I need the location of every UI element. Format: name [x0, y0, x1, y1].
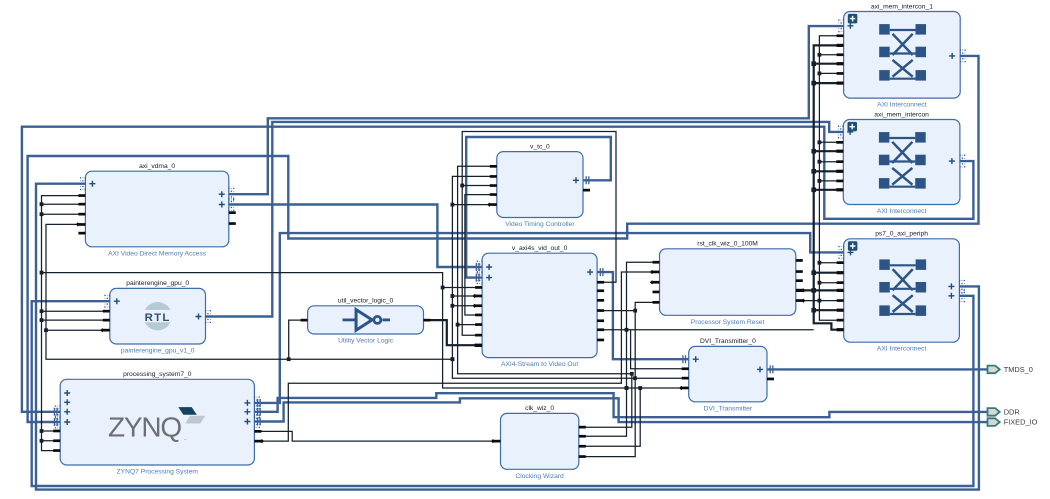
svg-text:painterengine_gpu_0: painterengine_gpu_0: [126, 280, 189, 287]
svg-text:FIXED_IO: FIXED_IO: [1004, 418, 1038, 427]
block axi_mem_intercon_1: [837, 3, 966, 108]
wire v_axi4s locked branch: [597, 310, 635, 312]
wire util_vector_logic output to v_axi4s vid_io_reset: [424, 320, 483, 345]
wire lane to DVI pin1: [631, 330, 689, 369]
svg-text:ZYNQ7 Processing System: ZYNQ7 Processing System: [117, 469, 199, 476]
svg-text:.: .: [184, 433, 186, 442]
wire lane to v_tc pin4 and v_axi4s pin4: [465, 195, 497, 315]
wire rst interconnect_aresetn to periph: [796, 300, 844, 302]
wire branch intercon1 pin4: [814, 63, 844, 65]
wire branch v_axi4s pin5: [458, 324, 483, 326]
wire branch intercon pin6: [814, 189, 844, 191]
wire ps7_periph M01_AXI to painterengine S00_AXI: [32, 296, 974, 486]
svg-text:Processor System Reset: Processor System Reset: [691, 319, 765, 326]
wire ZYNQ FCLK_CLK0 to clk_wiz clk_in1: [254, 431, 500, 441]
wire branch to ZYNQ S_AXI_HP1_ACLK: [42, 440, 61, 442]
wire branch intercon1 pin3: [819, 54, 843, 56]
wire branch to vdma pin m_axi_mm2s_aclk: [42, 213, 86, 215]
wire clock line to v_axi4s and DVI PixelClk: [42, 273, 689, 388]
wire ZYNQ FCLK_RESET0_N to rst ext_reset_in: [254, 272, 659, 441]
svg-text:AXI Interconnect: AXI Interconnect: [877, 208, 927, 215]
wire branch intercon pin5: [819, 180, 843, 182]
wire painterengine pin3 branch: [46, 329, 110, 331]
svg-text:AXI Interconnect: AXI Interconnect: [877, 346, 927, 353]
block clk_wiz_0: [491, 405, 586, 480]
wire branch v_axi4s pin3: [452, 305, 482, 307]
port TMDS_0: [988, 365, 1033, 374]
wire branch to ps7_periph ACLK row: [597, 329, 814, 331]
svg-text:painterengine_gpu_v1_0: painterengine_gpu_v1_0: [121, 348, 195, 355]
port DDR: [988, 408, 1020, 417]
wire lane to v_tc clk pin: [452, 176, 688, 378]
junction dots aresetn bus joins: [811, 61, 816, 312]
wire clock bus vdma-zynq vertical: [42, 196, 86, 451]
wire aresetn bus (thick) interconnects: [814, 45, 844, 329]
wire branch intercon pin3: [819, 161, 843, 163]
wire v_tc frame wire to v_axi4s right pin: [462, 132, 616, 283]
block ps7_0_axi_periph: [837, 231, 965, 353]
junction dots lane462 join: [460, 184, 464, 188]
block v_tc_0: [487, 143, 590, 228]
wire axi_mem_intercon_1 M00_AXI to ZYNQ S_AXI_HP1: [28, 56, 979, 422]
wire painterengine M00_AXI to axi_mem_intercon S00_AXI: [206, 122, 844, 317]
svg-text:ps7_0_axi_periph: ps7_0_axi_periph: [875, 231, 928, 238]
svg-text:util_vector_logic_0: util_vector_logic_0: [338, 298, 394, 305]
wire axi_mem_intercon M00_AXI to ZYNQ S_AXI_HP0: [22, 127, 974, 412]
block rst_clk_wiz_0_100M: [650, 241, 806, 326]
wire v_tc vtiming_out to v_axi4s vtiming: [466, 137, 611, 278]
junction dots fsync joins: [44, 328, 454, 361]
wire ZYNQ DDR to DDR port: [254, 393, 987, 417]
svg-text:ZYNQ: ZYNQ: [108, 412, 181, 443]
wire branch periph pin3: [819, 282, 843, 284]
svg-text:RTL: RTL: [145, 312, 171, 324]
wire ZYNQ FIXED_IO to FIXED_IO port: [254, 398, 987, 422]
wire ZYNQ M_AXI_GP0 to ps7_periph S00_AXI: [254, 233, 843, 403]
wire branch periph pin1: [819, 262, 843, 264]
wire branch to painterengine resetn pin: [42, 319, 110, 321]
svg-text:AXI Interconnect: AXI Interconnect: [877, 102, 927, 109]
svg-text:rst_clk_wiz_0_100M: rst_clk_wiz_0_100M: [697, 241, 758, 248]
junction dots lane457 joins: [456, 323, 634, 376]
wire branch to painterengine clk pin: [42, 310, 110, 312]
svg-text:axi_mem_intercon_1: axi_mem_intercon_1: [871, 3, 933, 10]
wire branch v_axi4s pin2: [452, 295, 482, 297]
junction dots clk lane joins: [625, 328, 629, 390]
block painterengine_gpu_0: [100, 280, 211, 354]
wire branch intercon pin4: [814, 170, 844, 172]
wire branch to ZYNQ S_AXI_HP0_ACLK: [42, 430, 61, 432]
wire rst peripheral_aresetn to periph: [796, 289, 844, 291]
wire branch intercon pin1: [819, 141, 843, 143]
svg-text:v_axi4s_vid_out_0: v_axi4s_vid_out_0: [512, 245, 568, 252]
wire clk_wiz locked to rst dcm_locked lane: [579, 302, 660, 456]
wire axi_vdma M_AXIS_MM2S to v_axi4s video_in: [229, 205, 482, 268]
block DVI_Transmitter_0: [679, 338, 774, 412]
wire v_axi4s vid_io_out to DVI_Transmitter: [597, 272, 689, 359]
wire branch intercon1 pin6: [814, 82, 844, 84]
wire vdma fsync to util/reset row: [46, 224, 452, 359]
svg-text:DVI_Transmitter_0: DVI_Transmitter_0: [700, 338, 756, 345]
svg-text:processing_system7_0: processing_system7_0: [123, 371, 192, 378]
block axi_mem_intercon: [836, 111, 965, 215]
wire branch periph pin6: [814, 309, 844, 311]
junction dots clock bus joins: [40, 202, 44, 442]
wire lane to v_tc resetn pin: [458, 166, 632, 373]
wire branch periph pin2: [814, 272, 844, 274]
wire branch to vdma pin s_axi_lite_aclk: [42, 203, 86, 205]
wire branch intercon1 pin5: [819, 72, 843, 74]
junction dots lane452 joins: [451, 203, 637, 380]
svg-text:axi_mem_intercon: axi_mem_intercon: [874, 111, 929, 118]
svg-text:Clocking Wizard: Clocking Wizard: [515, 473, 564, 480]
wire ps7_periph M00_AXI to axi_vdma S_AXI_LITE: [36, 184, 979, 490]
block axi_vdma_0: [76, 163, 236, 257]
svg-text:Video Timing Controller: Video Timing Controller: [505, 221, 575, 228]
port FIXED_IO: [988, 418, 1038, 427]
svg-text:DDR: DDR: [1004, 408, 1020, 417]
svg-text:v_tc_0: v_tc_0: [530, 143, 550, 150]
svg-text:axi_vdma_0: axi_vdma_0: [139, 163, 175, 170]
junction dots clock line joins: [441, 286, 642, 390]
block processing_system7_0: [53, 371, 264, 475]
wire clk_wiz clk_out3 lane: [579, 388, 640, 446]
junction dots locked lane join: [633, 309, 637, 313]
svg-text:DVI_Transmitter: DVI_Transmitter: [704, 405, 753, 412]
wire branch to v_axi4s aclk pin: [443, 287, 483, 289]
block util_vector_logic_0: [301, 298, 431, 345]
block v_axi4s_vid_out_0: [473, 245, 605, 368]
wire branch v_tc gen_clken: [452, 204, 493, 206]
wire aclk bus (thin) interconnects: [819, 36, 843, 321]
wire axi_vdma M_AXI_MM2S to axi_mem_intercon_1 S00_AXI: [229, 26, 844, 194]
wire clk_wiz clk_out1 to rst slowest_sync_clk: [579, 262, 660, 436]
svg-text:AXI Video Direct Memory Access: AXI Video Direct Memory Access: [108, 250, 207, 257]
wire branch intercon pin2: [814, 150, 844, 152]
svg-text:TMDS_0: TMDS_0: [1004, 365, 1033, 374]
svg-text:clk_wiz_0: clk_wiz_0: [525, 405, 554, 412]
junction dots aclk bus joins: [818, 53, 822, 303]
svg-text:AXI4-Stream to Video Out: AXI4-Stream to Video Out: [501, 361, 578, 368]
svg-text:Utility Vector Logic: Utility Vector Logic: [338, 338, 394, 345]
wire DVI_Transmitter TMDS to TMDS_0 port: [767, 368, 987, 370]
wire util_vector_logic input: [289, 320, 308, 359]
wire clk_wiz clk_out2 up to DVI pin1 lane: [579, 374, 632, 427]
wire lane462 down to v_axi4s pin6: [462, 186, 482, 336]
